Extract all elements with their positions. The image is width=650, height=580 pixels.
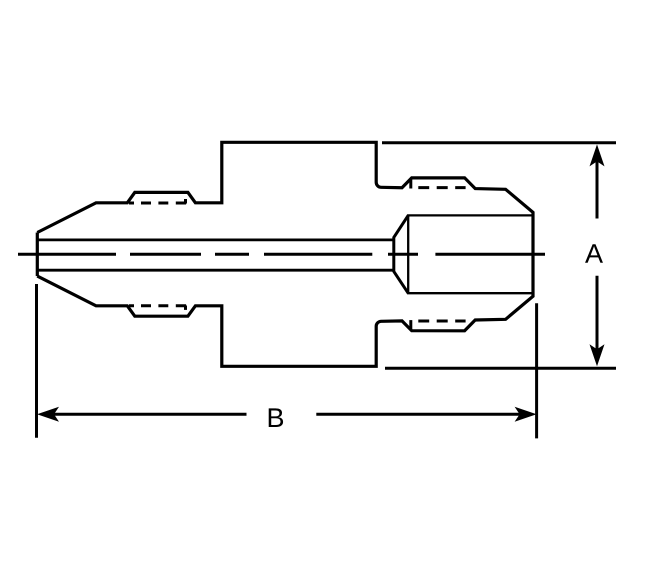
body outline top half (flare slant, left thread, hex, right thread, end chamfer) [37,142,533,366]
label B [269,408,283,427]
dimension A top extension line [382,141,616,144]
right thread hidden dashes top [418,186,465,189]
dimension A bottom arrowhead [590,344,605,366]
left thread runout tick bottom [184,306,187,310]
bore line top [37,238,394,241]
bore line bottom [37,269,394,272]
nose face (left end face of flare nose) [36,233,39,277]
dimension B left extension line [35,284,38,438]
dimension B right arrowhead [515,407,537,422]
dimension A top arrowhead [590,144,605,166]
left thread hidden (minor dia) dashes top [129,202,186,205]
dimension A bottom extension line [385,367,616,370]
dimension B left arrowhead [37,407,59,422]
left thread runout tick top [184,199,187,204]
right thread hidden dashes bottom [418,320,465,323]
right thread runout tick top [409,180,412,189]
flare seat cone (right end internal cone) [394,215,408,293]
label A [585,244,603,263]
dimension B line right shaft [316,413,531,416]
dimension A line lower shaft [596,276,599,362]
left thread hidden dashes bottom [129,304,186,307]
dimension B line left shaft [42,413,247,416]
dimension A line upper shaft [596,150,599,219]
dimension B right extension line [535,303,538,438]
centerline [18,253,545,256]
right thread runout tick bottom [409,320,412,329]
counterbore rectangle (right end socket) [408,215,533,293]
